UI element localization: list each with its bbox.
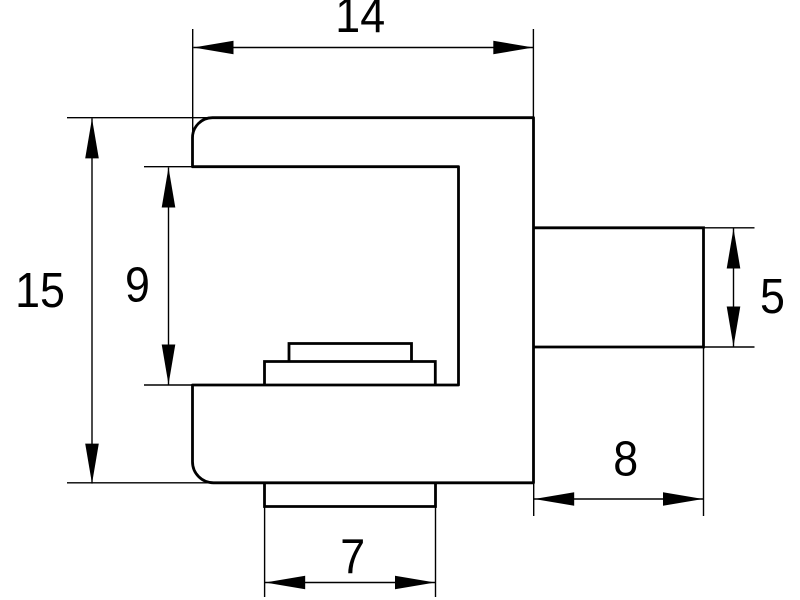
dim 7 extension line left [264, 507, 266, 597]
svg-text:7: 7 [340, 529, 365, 583]
dim 9 extension line bottom [144, 384, 194, 386]
svg-text:5: 5 [760, 269, 785, 323]
dim 15 arrow up [85, 118, 99, 158]
dim 15 dimension line [91, 118, 93, 483]
dim 8 arrow left [534, 492, 574, 506]
svg-text:8: 8 [613, 432, 638, 486]
dim 15 extension line bottom [67, 482, 213, 484]
svg-text:9: 9 [125, 258, 150, 312]
dim 15 extension line top [67, 117, 212, 119]
dim 8 dimension line [534, 498, 703, 500]
dim 8 arrow right [663, 492, 703, 506]
dim 9 dimension line [168, 168, 170, 385]
dim 9 arrow down [162, 345, 176, 385]
dim 5 arrow down [727, 307, 741, 347]
dim 9 extension line top [144, 166, 194, 168]
foot (bottom tab) [265, 483, 436, 507]
dim 7 arrow right [395, 576, 435, 590]
dim 8 extension line left [533, 483, 535, 516]
dim 5 extension line top [704, 227, 755, 229]
boss upper step [289, 344, 412, 362]
dim 14 extension line right [532, 29, 534, 117]
dim 15 arrow down [85, 444, 99, 484]
dim 5 extension line bottom [704, 346, 755, 348]
boss lower step [265, 362, 436, 386]
dim 14 dimension line [194, 47, 534, 49]
svg-text:14: 14 [335, 0, 385, 42]
dim 14 arrow right [493, 41, 533, 55]
stub (right protrusion) [534, 228, 704, 347]
dim 7 arrow left [265, 576, 305, 590]
dim 8 extension line right [703, 348, 705, 516]
dim 14 arrow left [194, 41, 234, 55]
dim 9 arrow up [162, 168, 176, 208]
dim 14 extension line left [192, 29, 194, 150]
dim 5 arrow up [727, 229, 741, 269]
body outline [193, 118, 534, 483]
dim 7 extension line right [435, 507, 437, 597]
dim 5 dimension line [733, 229, 735, 347]
svg-text:15: 15 [15, 263, 65, 317]
dim 7 dimension line [265, 582, 435, 584]
